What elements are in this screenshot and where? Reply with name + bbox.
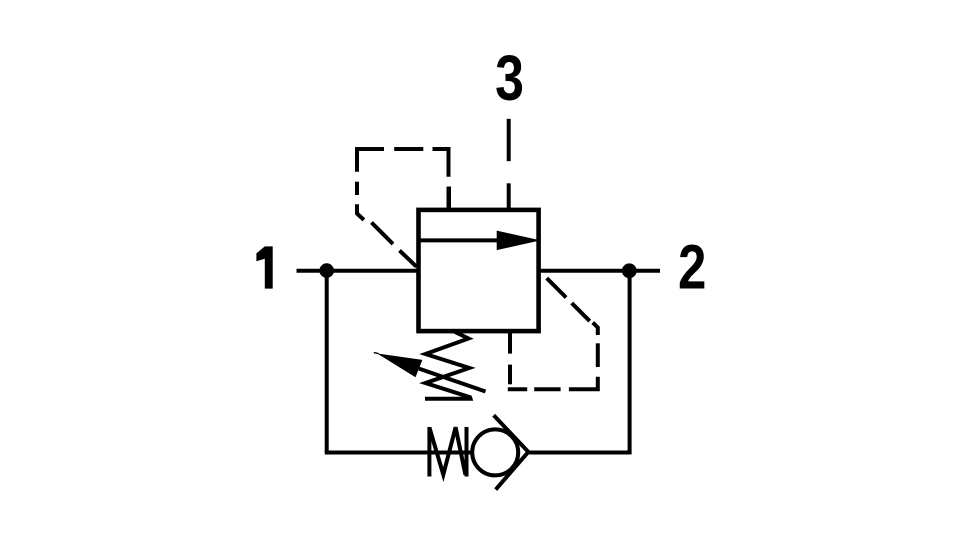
check valve seat <box>494 415 529 489</box>
port 3 label <box>495 43 524 114</box>
wire port 1 lead <box>297 269 419 273</box>
valve bottom pilot stub <box>508 331 512 354</box>
wire left branch down <box>325 271 329 453</box>
valve flow arrow <box>419 231 541 251</box>
wire bottom right <box>528 451 631 455</box>
pilot line dashed loop left (port 1 pilot) <box>357 149 449 267</box>
svg-text:2: 2 <box>678 233 706 303</box>
adjustment arrow <box>374 353 486 392</box>
spring (adjustable) <box>425 332 471 399</box>
wire bottom left <box>325 451 471 455</box>
wire port 2 lead <box>539 269 660 273</box>
pilot line dashed loop right (port 2 pilot) <box>508 278 598 389</box>
port 1 label <box>256 246 272 288</box>
pilot line port 3 drain (dashed) <box>507 119 511 161</box>
check valve poppet circle <box>472 429 518 475</box>
node port 2 junction <box>622 263 637 278</box>
valve top drain stub (port 3) <box>507 183 511 210</box>
check valve <box>429 415 528 489</box>
valve top pilot stub left <box>447 187 451 210</box>
port 2 label <box>678 233 706 303</box>
valve body <box>419 210 539 331</box>
wire right branch down <box>628 271 632 453</box>
node port 1 junction <box>319 263 334 278</box>
svg-text:3: 3 <box>495 43 524 114</box>
check valve spring <box>429 427 466 477</box>
